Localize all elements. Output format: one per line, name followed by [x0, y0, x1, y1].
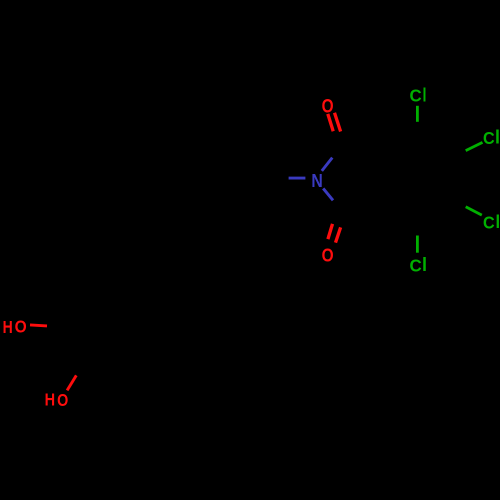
- svg-text:N: N: [311, 171, 322, 191]
- svg-text:C: C: [410, 87, 422, 106]
- atom label Cl4 (bottom ring chlorine): [409, 254, 427, 276]
- svg-text:l: l: [422, 254, 427, 276]
- svg-text:O: O: [322, 244, 334, 265]
- atom label Cl2 (upper-right ring chlorine): [483, 127, 500, 149]
- atom label HO2 (lower catechol hydroxyl): [45, 390, 69, 410]
- atom label HO1 (upper catechol hydroxyl): [3, 317, 27, 337]
- svg-text:C: C: [483, 128, 495, 148]
- svg-text:H: H: [3, 317, 13, 337]
- bond C-OH2 (red half): [67, 375, 76, 390]
- bond C-Cl3 (green half): [466, 207, 482, 215]
- bond C-Cl1 (green half): [416, 106, 419, 122]
- svg-text:O: O: [57, 390, 68, 410]
- bond C-Cl2 (green half): [466, 142, 483, 150]
- svg-text:l: l: [495, 127, 500, 149]
- svg-text:l: l: [422, 85, 426, 107]
- bond C-Cl4 (green half): [416, 236, 419, 253]
- bond N1-C1 (blue half): [322, 158, 333, 171]
- atom label Cl3 (lower-right ring chlorine): [483, 212, 500, 232]
- atom label Cl1 (top ring chlorine): [410, 85, 427, 107]
- svg-text:C: C: [483, 213, 495, 233]
- bond N1-CH3 methyl bond (blue half): [289, 177, 306, 180]
- bond C1=O1 carbonyl double bond (red half): [328, 113, 341, 132]
- svg-text:l: l: [496, 212, 500, 232]
- svg-text:O: O: [15, 317, 27, 337]
- bond C2=O2 carbonyl double bond (red half): [328, 224, 341, 243]
- bond C-OH1 (red half): [30, 325, 47, 326]
- bond N1-C2 (blue half): [323, 188, 333, 200]
- svg-text:C: C: [409, 256, 421, 276]
- svg-text:H: H: [45, 390, 55, 410]
